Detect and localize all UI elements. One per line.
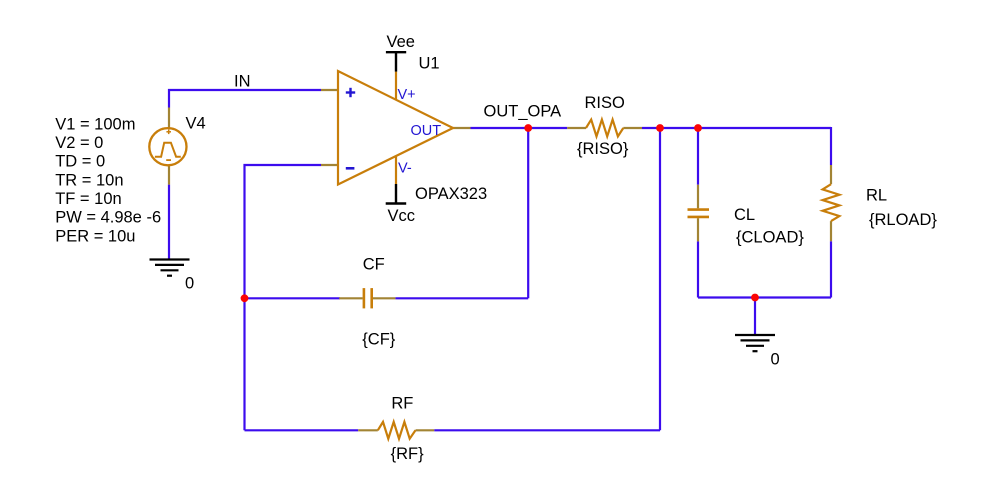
op-amp V- power stub (orange part): [395, 157, 397, 185]
svg-text:OPAX323: OPAX323: [415, 185, 487, 203]
svg-text:{RLOAD}: {RLOAD}: [869, 211, 937, 229]
op-amp + input mark: [346, 88, 355, 97]
lead CF right: [373, 297, 395, 299]
resistor RL zigzag (vertical): [823, 184, 840, 221]
junction node bottom rail / ground 2: [751, 294, 759, 302]
V4 parameter list: [55, 115, 161, 245]
svg-text:V2 = 0: V2 = 0: [55, 134, 103, 152]
svg-text:PER = 10u: PER = 10u: [55, 227, 135, 245]
svg-text:IN: IN: [234, 73, 251, 91]
wire CF right: [395, 297, 528, 299]
wire node A down to RF rail: [659, 127, 661, 430]
wire OUT_OPA node down to CF: [527, 127, 529, 298]
wire CL top lead: [697, 127, 699, 185]
lead V4 bottom: [168, 166, 170, 185]
wire opamp output to RISO: [471, 127, 568, 129]
svg-text:Vcc: Vcc: [388, 207, 416, 225]
svg-text:0: 0: [185, 275, 194, 293]
svg-text:{CLOAD}: {CLOAD}: [736, 229, 804, 247]
lead CF left: [339, 297, 362, 299]
svg-text:V1 = 100m: V1 = 100m: [55, 115, 135, 133]
wire RF rail left: [245, 429, 359, 431]
svg-text:V+: V+: [398, 87, 416, 103]
svg-text:0: 0: [771, 351, 780, 369]
Vcc power bar: [386, 184, 407, 204]
svg-text:RISO: RISO: [585, 94, 626, 112]
svg-text:V-: V-: [398, 160, 412, 176]
Vee power bar: [386, 52, 406, 71]
wire inverting input horizontal + feedback vertical: [245, 165, 322, 430]
lead output stub: [452, 127, 471, 129]
lead RL top: [830, 165, 832, 184]
op-amp V+ power stub (orange part): [395, 72, 397, 100]
wire CF left: [245, 297, 341, 299]
svg-text:V4: V4: [186, 115, 206, 133]
resistor RISO zigzag: [586, 120, 623, 137]
svg-text:TF = 10n: TF = 10n: [55, 190, 122, 208]
wire CL bottom to rail: [697, 241, 699, 297]
junction node after RISO: [656, 124, 664, 132]
voltage source V4 circle: [149, 128, 186, 165]
wire bottom rail to ground 2: [754, 298, 756, 336]
V4 pulse waveform: [155, 143, 181, 157]
wire RL bottom: [830, 241, 832, 297]
op-amp - input mark: [346, 167, 355, 170]
svg-text:{CF}: {CF}: [362, 331, 396, 349]
component leads (tan): [169, 90, 831, 430]
lead -input stub: [321, 164, 338, 166]
lead RISO left: [567, 127, 586, 129]
svg-text:RL: RL: [866, 186, 887, 204]
svg-text:{RISO}: {RISO}: [577, 140, 629, 158]
capacitor CF plates: [364, 288, 372, 308]
svg-text:CL: CL: [734, 206, 755, 224]
wire V4 to ground: [168, 185, 170, 260]
lead RF right: [416, 429, 435, 431]
svg-text:TR = 10n: TR = 10n: [55, 171, 123, 189]
V4 plus mark: [166, 130, 171, 135]
resistor RF zigzag: [378, 422, 416, 439]
svg-text:Vee: Vee: [387, 33, 415, 51]
wire IN net horizontal: [169, 90, 831, 430]
junction node feedback: [241, 294, 249, 302]
ground 1: [150, 260, 190, 276]
capacitor CL plates: [688, 210, 710, 217]
svg-text:RF: RF: [391, 395, 413, 413]
lead CL bottom: [697, 218, 699, 241]
svg-text:CF: CF: [363, 255, 385, 273]
junction node CL top: [694, 124, 702, 132]
lead RL bottom: [830, 221, 832, 241]
svg-text:OUT: OUT: [411, 123, 442, 139]
wire RF rail right: [434, 429, 660, 431]
lead RF left: [358, 429, 378, 431]
V4 minus mark: [166, 159, 171, 161]
svg-text:OUT_OPA: OUT_OPA: [484, 102, 562, 120]
lead RISO right: [623, 127, 642, 129]
lead +input stub: [321, 89, 338, 91]
op-amp U1 triangle: [338, 71, 453, 185]
wire RL top: [830, 127, 832, 165]
svg-text:{RF}: {RF}: [391, 445, 425, 463]
svg-text:U1: U1: [419, 55, 440, 73]
junction node OUT_OPA: [524, 124, 532, 132]
wire RISO to RL top rail: [642, 127, 831, 129]
ground 2: [735, 335, 775, 351]
svg-text:PW = 4.98e -6: PW = 4.98e -6: [55, 209, 161, 227]
lead V4 top: [168, 108, 170, 131]
lead CL top: [697, 185, 699, 209]
svg-text:TD = 0: TD = 0: [55, 153, 105, 171]
wire load bottom rail: [698, 296, 831, 298]
